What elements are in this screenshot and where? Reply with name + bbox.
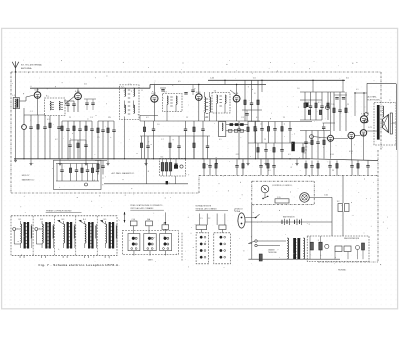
svg-text:25: 25 <box>264 139 266 141</box>
svg-text:0.1: 0.1 <box>146 117 149 119</box>
svg-text:Fig. 7 - Schema elettrico Le: Fig. 7 - Schema elettrico Lesaphon H578-… <box>39 263 120 267</box>
svg-text:EX. TEL.(ESTERNA): EX. TEL.(ESTERNA) <box>21 64 42 67</box>
svg-text:1.6: 1.6 <box>253 78 256 80</box>
svg-text:25: 25 <box>69 117 71 119</box>
svg-text:P.1: P.1 <box>200 218 202 220</box>
svg-text:TASTI: TASTI <box>148 258 154 261</box>
svg-text:0.1: 0.1 <box>268 170 271 172</box>
svg-text:0.1: 0.1 <box>304 153 307 155</box>
svg-text:MAGNETICO: MAGNETICO <box>22 179 35 182</box>
svg-text:6.A7: 6.A7 <box>35 89 40 92</box>
svg-text:L.1: L.1 <box>12 95 15 97</box>
svg-text:5.Z3: 5.Z3 <box>368 127 372 129</box>
svg-text:PRES. SCAT.TA ONDE CO PREMU: PRES. SCAT.TA ONDE CO PREMUTO <box>130 204 163 207</box>
svg-text:6.D6: 6.D6 <box>75 91 80 93</box>
svg-text:T.3: T.3 <box>164 91 167 93</box>
svg-text:C.2: C.2 <box>128 84 131 86</box>
svg-text:0.1: 0.1 <box>219 139 222 141</box>
svg-text:T.2: T.2 <box>121 87 124 89</box>
svg-text:1.6: 1.6 <box>84 83 87 85</box>
svg-text:1.6: 1.6 <box>157 124 160 126</box>
svg-text:C.3: C.3 <box>90 117 93 119</box>
svg-text:MOD.57: MOD.57 <box>22 175 31 177</box>
svg-text:1.15: 1.15 <box>277 197 281 199</box>
svg-text:VISTI DAL LATO COMANDI: VISTI DAL LATO COMANDI <box>130 207 154 210</box>
svg-text:PRESE COPPIA FONORIV.: PRESE COPPIA FONORIV. <box>46 210 72 213</box>
svg-text:ALT. PARL.: ALT. PARL. <box>368 96 378 99</box>
svg-text:0.1: 0.1 <box>318 102 321 104</box>
svg-text:B.5: B.5 <box>104 219 107 221</box>
svg-text:C.7: C.7 <box>161 139 164 141</box>
svg-text:0.1: 0.1 <box>356 89 359 91</box>
svg-text:1.6: 1.6 <box>297 88 300 90</box>
svg-text:F.2: F.2 <box>337 201 339 203</box>
svg-text:H578/A5: H578/A5 <box>338 269 347 272</box>
svg-text:25: 25 <box>237 154 239 156</box>
svg-text:B.4: B.4 <box>83 219 86 221</box>
svg-text:1.5: 1.5 <box>97 137 100 139</box>
svg-text:B.3: B.3 <box>62 219 65 221</box>
svg-text:25: 25 <box>186 117 188 119</box>
svg-text:T.4: T.4 <box>214 91 217 93</box>
svg-text:NORMAL REGISTR: NORMAL REGISTR <box>196 204 212 207</box>
svg-text:S.1: S.1 <box>161 157 164 159</box>
svg-text:C.66: C.66 <box>132 219 136 221</box>
svg-text:25: 25 <box>347 104 349 106</box>
svg-text:C.8: C.8 <box>241 117 244 119</box>
svg-text:B.2: B.2 <box>40 219 43 221</box>
svg-text:0.5: 0.5 <box>205 117 208 119</box>
svg-text:25: 25 <box>283 117 285 119</box>
svg-text:C.66: C.66 <box>324 194 328 196</box>
svg-text:C.15: C.15 <box>304 147 308 149</box>
svg-text:ELETTRODIN.: ELETTRODIN. <box>368 100 381 102</box>
svg-text:ANTENNA: ANTENNA <box>21 67 32 70</box>
svg-text:TENSIONE: TENSIONE <box>268 252 278 254</box>
svg-text:0.1: 0.1 <box>47 119 50 121</box>
svg-text:25: 25 <box>332 170 334 172</box>
svg-text:B.1: B.1 <box>19 219 22 221</box>
svg-text:C.1: C.1 <box>30 111 33 113</box>
svg-text:0.1: 0.1 <box>288 154 291 156</box>
svg-text:RADDRIZZATORE: RADDRIZZATORE <box>344 237 360 240</box>
svg-text:P.2: P.2 <box>208 218 210 220</box>
svg-text:0.5: 0.5 <box>178 81 181 83</box>
svg-text:C.45: C.45 <box>210 78 214 80</box>
svg-text:SPINA: SPINA <box>235 210 241 213</box>
svg-text:ALT. PARL. MAGNETICO: ALT. PARL. MAGNETICO <box>112 172 135 175</box>
svg-text:0.1: 0.1 <box>256 117 259 119</box>
svg-text:0.2: 0.2 <box>55 139 58 141</box>
svg-text:5W: 5W <box>108 117 111 119</box>
svg-text:1.35: 1.35 <box>304 150 308 152</box>
svg-text:6.B7: 6.B7 <box>151 93 156 95</box>
svg-text:6.V6: 6.V6 <box>349 151 353 153</box>
svg-text:CONTROLLO GIRI F.I.: CONTROLLO GIRI F.I. <box>272 185 293 187</box>
svg-text:T.1: T.1 <box>46 96 49 98</box>
svg-text:6.B8: 6.B8 <box>196 92 201 94</box>
svg-text:BATTERIA OK: BATTERIA OK <box>283 215 295 218</box>
